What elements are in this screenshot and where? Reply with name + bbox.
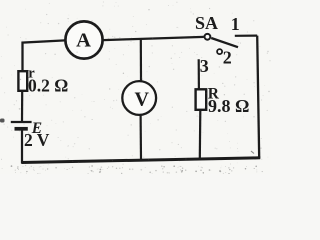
wire r to battery [21,92,23,122]
scan noise speckles [1,2,271,175]
svg-text:9.8 Ω: 9.8 Ω [208,96,249,116]
svg-text:0.2 Ω: 0.2 Ω [28,76,68,96]
scan artifact: left-edge smudge near battery [0,119,5,123]
battery E short plate [15,127,28,131]
wire contact-3 drop [198,59,200,88]
wire voltmeter bottom lead [140,115,143,160]
wire contact-1 stub [235,34,257,36]
wire battery to bottom [21,129,23,164]
voltmeter U-V circle [122,81,156,115]
resistor r box [18,71,27,91]
svg-text:3: 3 [200,56,209,76]
resistor R box [196,89,207,110]
svg-text:A: A [76,30,91,52]
svg-text:SA: SA [195,13,218,33]
wire bottom [22,158,261,163]
battery E long plate [11,121,32,123]
switch SA pivot [205,34,211,40]
wire voltmeter top lead [140,38,142,81]
wire right side [257,36,259,159]
switch contact 2 [217,49,222,54]
wire top-left segment [23,40,66,71]
paper background [0,0,271,174]
switch SA arm [211,38,238,47]
wire R to bottom [199,111,202,159]
scan artifact: small mark near bottom-right corner [251,151,254,154]
svg-text:1: 1 [231,14,240,34]
svg-text:V: V [134,89,149,111]
wire top-right segment [103,37,203,40]
ammeter U-A circle [65,21,102,58]
svg-text:2: 2 [223,47,232,67]
